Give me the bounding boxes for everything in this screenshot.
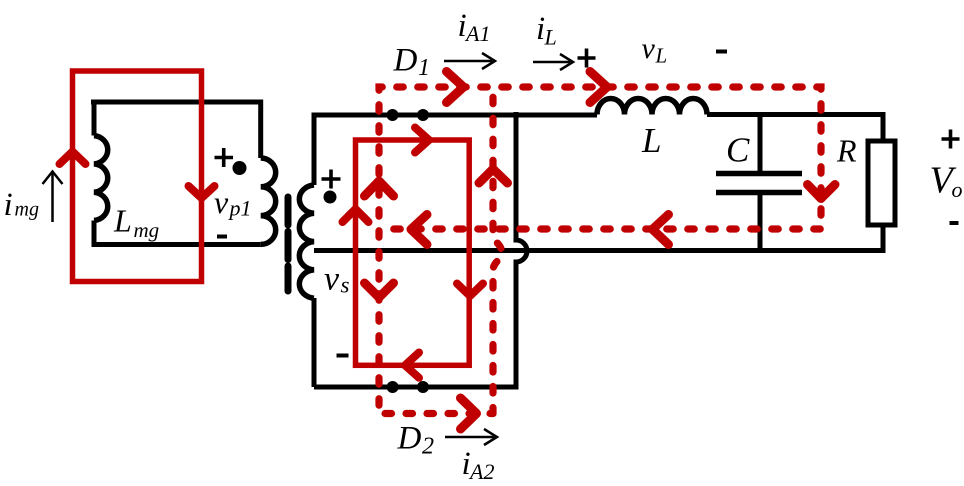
wire: primary loop right upper xyxy=(258,100,263,159)
arrowhead: dashed middle horizontal, left (near loop2) xyxy=(411,215,427,245)
phase dot: primary winding xyxy=(233,161,247,175)
wire: secondary loop right side with hop over bottom rail xyxy=(516,112,527,390)
junction dot: top rail left xyxy=(387,109,399,121)
minus sign: V_o xyxy=(950,221,959,225)
arrowhead: loop1 right edge down xyxy=(189,186,215,198)
inductor L (4 bumps) xyxy=(597,99,707,115)
red dashed line: bottom horizontal (D2 path) xyxy=(379,410,493,417)
svg-text:o: o xyxy=(952,177,963,202)
svg-text:D: D xyxy=(393,43,418,79)
wire: secondary bottom lead xyxy=(312,298,317,387)
black arrow: i_L (right) xyxy=(533,61,570,64)
arrowhead: dashed left vertical, down xyxy=(365,283,394,298)
phase dot: secondary winding xyxy=(324,191,337,204)
wire: secondary loop bottom xyxy=(314,385,516,390)
inductor Lmg: magnetizing inductance (3 bumps) xyxy=(94,136,108,221)
wire: resistor bottom lead xyxy=(881,225,886,253)
arrowhead: dashed right vertical, down xyxy=(808,185,836,199)
svg-text:v: v xyxy=(214,184,229,220)
arrowhead: dashed top, right (iL) xyxy=(590,72,607,103)
wire: primary loop bottom xyxy=(92,242,261,247)
svg-text:A1: A1 xyxy=(464,21,490,46)
inductor: transformer secondary winding (4 bumps) xyxy=(299,185,314,298)
resistor R (box) xyxy=(868,141,895,225)
arrowhead: loop2 bottom edge left xyxy=(405,353,419,378)
capacitor C: top plate xyxy=(716,171,802,177)
svg-text:A2: A2 xyxy=(468,459,494,484)
arrowhead: loop2 left edge up xyxy=(343,209,369,222)
svg-text:C: C xyxy=(726,131,750,170)
svg-text:2: 2 xyxy=(422,434,434,460)
svg-text:mg: mg xyxy=(134,218,160,242)
svg-text:v: v xyxy=(642,32,656,65)
arrowhead: dashed top, right (iA1) xyxy=(447,72,464,103)
wire: top rail right of L xyxy=(707,112,883,117)
arrowhead: dashed left vertical, up xyxy=(365,181,394,196)
minus sign: v_s xyxy=(337,354,349,358)
arrowhead: dashed middle vertical, up xyxy=(479,169,508,183)
wire: primary loop left lower xyxy=(92,221,97,248)
black arrow: i_mg (up) xyxy=(51,173,54,222)
red solid loop 2: secondary circulating path xyxy=(356,140,470,365)
svg-text:L: L xyxy=(655,44,668,68)
black arrow: i_A1 (right) xyxy=(444,60,492,63)
capacitor C: bottom lead xyxy=(758,193,763,250)
wire: primary loop top xyxy=(91,100,261,105)
svg-text:p1: p1 xyxy=(228,196,252,221)
svg-text:L: L xyxy=(641,121,661,160)
wire: right side down to resistor xyxy=(881,112,886,141)
arrowhead: dashed bottom horizontal, right (iA2) xyxy=(461,398,477,429)
junction dot: bottom wire right xyxy=(417,381,429,393)
junction dot: bottom wire left xyxy=(387,381,399,393)
arrowhead: loop1 left edge up xyxy=(60,152,86,165)
junction dot: top rail right xyxy=(417,109,429,121)
svg-text:L: L xyxy=(544,25,557,50)
svg-text:i: i xyxy=(4,187,13,223)
plus sign: v_s xyxy=(322,170,341,189)
wire: bottom rail / center tap xyxy=(314,248,883,253)
red dashed path: left vertical + top horizontal + right vertical + middle return (D1 loop) xyxy=(379,87,821,414)
black arrow: i_A2 (right) xyxy=(445,436,494,439)
minus sign: v_p1 xyxy=(217,235,227,239)
inductor: transformer primary winding (3 bumps) xyxy=(261,158,276,244)
svg-text:s: s xyxy=(341,273,350,298)
capacitor C: bottom plate xyxy=(716,190,802,196)
arrowhead: dashed middle horizontal, left (near C) xyxy=(653,215,669,245)
svg-text:R: R xyxy=(836,133,857,169)
arrowhead: loop2 top edge right xyxy=(415,128,429,153)
plus sign: v_p1 xyxy=(215,148,234,167)
transformer core (dashed) xyxy=(285,197,292,291)
plus sign: V_o xyxy=(942,130,960,149)
svg-text:v: v xyxy=(324,261,340,298)
red dashed line: middle vertical with jog over bottom rail xyxy=(493,87,502,414)
wire: top rail from secondary to output xyxy=(312,113,598,118)
red solid loop 1: magnetizing current path xyxy=(73,71,202,282)
svg-text:D: D xyxy=(397,421,422,457)
wire: secondary top lead xyxy=(312,115,317,185)
svg-text:1: 1 xyxy=(418,55,430,81)
capacitor C: top lead xyxy=(758,115,763,174)
arrowhead: loop2 right edge down xyxy=(457,284,483,297)
wire: primary loop left upper xyxy=(92,100,97,136)
svg-text:mg: mg xyxy=(15,199,39,221)
plus sign: v_L xyxy=(578,49,596,68)
minus sign: v_L xyxy=(716,50,727,54)
svg-text:L: L xyxy=(113,203,132,239)
